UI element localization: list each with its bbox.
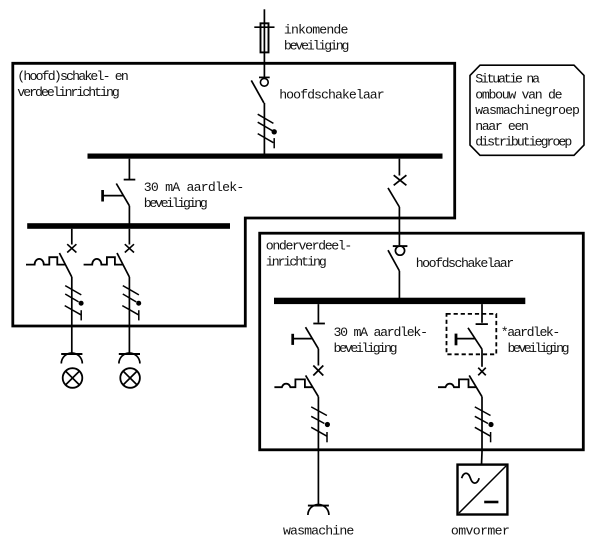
- svg-text:Situatie na: Situatie na: [475, 72, 540, 87]
- svg-text:beveiliging: beveiliging: [284, 39, 350, 54]
- svg-text:hoofdschakelaar: hoofdschakelaar: [279, 88, 385, 103]
- svg-text:inkomende: inkomende: [284, 23, 349, 38]
- svg-text:beveiliging: beveiliging: [334, 341, 398, 356]
- svg-text:naar een: naar een: [475, 119, 529, 134]
- svg-text:onderverdeel-: onderverdeel-: [266, 239, 353, 254]
- svg-text:30 mA aardlek-: 30 mA aardlek-: [334, 325, 429, 340]
- svg-text:verdeelinrichting: verdeelinrichting: [17, 85, 120, 100]
- svg-text:inrichting: inrichting: [266, 255, 327, 270]
- svg-text:omvormer: omvormer: [451, 523, 510, 538]
- svg-text:beveiliging: beveiliging: [144, 196, 208, 211]
- svg-text:wasmachinegroep: wasmachinegroep: [475, 103, 580, 118]
- svg-text:*aardlek-: *aardlek-: [501, 325, 561, 340]
- svg-text:30 mA aardlek-: 30 mA aardlek-: [144, 180, 245, 195]
- svg-text:wasmachine: wasmachine: [283, 523, 354, 538]
- svg-text:(hoofd)schakel- en: (hoofd)schakel- en: [17, 69, 129, 84]
- svg-text:distributiegroep: distributiegroep: [475, 135, 572, 150]
- svg-text:ombouw van de: ombouw van de: [475, 87, 562, 102]
- svg-text:hoofdschakelaar: hoofdschakelaar: [416, 256, 515, 271]
- svg-text:beveiliging: beveiliging: [508, 341, 570, 356]
